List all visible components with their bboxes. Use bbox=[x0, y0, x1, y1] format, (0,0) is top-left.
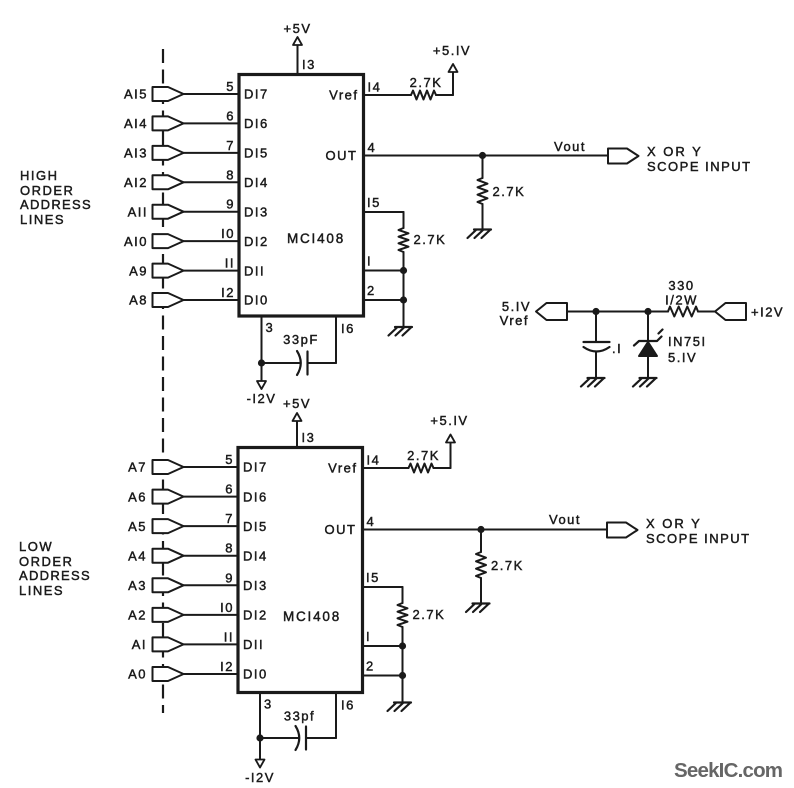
wire 5.1V rail bbox=[567, 311, 648, 313]
svg-text:2: 2 bbox=[366, 659, 375, 674]
svg-text:+5.IV: +5.IV bbox=[430, 413, 468, 428]
svg-text:A2: A2 bbox=[128, 608, 147, 623]
svg-text:LINES: LINES bbox=[19, 583, 64, 598]
svg-text:ORDER: ORDER bbox=[20, 183, 74, 198]
input buffer AI5 with wire to pin 5 bbox=[124, 79, 269, 102]
svg-text:ADDRESS: ADDRESS bbox=[19, 568, 91, 583]
svg-text:I2: I2 bbox=[220, 659, 234, 674]
svg-text:5: 5 bbox=[226, 79, 235, 94]
input buffer AI4 with wire to pin 6 bbox=[124, 108, 269, 131]
svg-text:8: 8 bbox=[225, 541, 234, 556]
svg-text:AI3: AI3 bbox=[124, 146, 148, 161]
svg-text:DI4: DI4 bbox=[243, 548, 268, 563]
junction at filter capacitor bbox=[592, 308, 599, 315]
svg-text:A0: A0 bbox=[128, 667, 147, 682]
resistor 2.7K from Vout node to ground bbox=[476, 530, 524, 604]
svg-text:DII: DII bbox=[243, 637, 264, 652]
svg-text:2: 2 bbox=[367, 283, 376, 298]
svg-text:33pF: 33pF bbox=[283, 332, 319, 347]
svg-text:AI4: AI4 bbox=[124, 116, 148, 131]
input buffer A2 with wire to pin I0 bbox=[128, 600, 268, 623]
svg-text:A9: A9 bbox=[129, 263, 148, 278]
svg-text:Vout: Vout bbox=[554, 139, 586, 154]
svg-text:AI0: AI0 bbox=[124, 234, 148, 249]
ground below Vout load resistor bbox=[468, 230, 492, 239]
svg-text:5.IV: 5.IV bbox=[668, 350, 697, 365]
input buffer A8 with wire to pin I2 bbox=[129, 285, 269, 308]
input buffer AI3 with wire to pin 7 bbox=[124, 138, 269, 161]
svg-text:A4: A4 bbox=[128, 548, 147, 563]
ground below zener bbox=[633, 378, 657, 387]
svg-text:+5V: +5V bbox=[284, 21, 312, 36]
svg-text:SeekIC.com: SeekIC.com bbox=[674, 759, 782, 782]
svg-text:33pf: 33pf bbox=[284, 709, 315, 724]
U2 pin 13 +5V supply bbox=[283, 396, 315, 448]
svg-text:DI0: DI0 bbox=[244, 293, 269, 308]
svg-text:DI3: DI3 bbox=[244, 204, 269, 219]
svg-text:4: 4 bbox=[368, 140, 377, 155]
svg-text:2.7K: 2.7K bbox=[493, 184, 526, 199]
label HIGH ORDER ADDRESS LINES bbox=[20, 168, 92, 227]
svg-text:Vref: Vref bbox=[500, 313, 529, 328]
U2 pin 15 wire and 2.7K resistor to pins 1,2 bbox=[363, 570, 446, 646]
filter capacitor .1 bbox=[584, 312, 623, 378]
svg-text:DI2: DI2 bbox=[244, 234, 269, 249]
svg-text:I4: I4 bbox=[367, 453, 381, 468]
ground below Vout load resistor bbox=[466, 604, 490, 613]
svg-text:I: I bbox=[367, 254, 372, 269]
input buffer A7 with wire to pin 5 bbox=[128, 452, 268, 475]
svg-text:8: 8 bbox=[226, 167, 235, 182]
svg-text:5: 5 bbox=[225, 452, 234, 467]
svg-text:A5: A5 bbox=[128, 519, 147, 534]
svg-text:X OR Y: X OR Y bbox=[646, 516, 702, 531]
U1 pin 15 wire and 2.7K resistor to pins 1,2 bbox=[364, 195, 447, 271]
svg-text:DII: DII bbox=[244, 263, 265, 278]
svg-text:DI6: DI6 bbox=[243, 489, 268, 504]
svg-text:A6: A6 bbox=[128, 489, 147, 504]
svg-text:LOW: LOW bbox=[19, 539, 53, 554]
input buffer A3 with wire to pin 9 bbox=[128, 570, 268, 593]
compensation capacitor 33pf between pin 3 and pin 16 bbox=[260, 693, 355, 751]
svg-text:7: 7 bbox=[225, 511, 234, 526]
U1 pin 4 OUT wire to scope, node Vout bbox=[326, 139, 608, 163]
svg-text:DI5: DI5 bbox=[243, 519, 268, 534]
svg-text:DI7: DI7 bbox=[243, 460, 268, 475]
svg-text:+5.IV: +5.IV bbox=[433, 43, 471, 58]
ground below pins 1-2 bbox=[389, 327, 413, 336]
U2 pin 3 wire to -12V bbox=[245, 693, 275, 786]
svg-text:I6: I6 bbox=[341, 698, 355, 713]
svg-text:.I: .I bbox=[612, 341, 622, 356]
svg-text:I0: I0 bbox=[221, 226, 235, 241]
svg-text:AI: AI bbox=[132, 637, 147, 652]
svg-text:7: 7 bbox=[226, 138, 235, 153]
svg-text:Vref: Vref bbox=[329, 88, 358, 103]
svg-text:I3: I3 bbox=[302, 57, 316, 72]
svg-text:2.7K: 2.7K bbox=[414, 232, 447, 247]
svg-text:A3: A3 bbox=[128, 578, 147, 593]
DAC IC U2 MC1408 box bbox=[238, 448, 363, 693]
U1 pin 14 Vref, resistor 2.7K to +5.1V bbox=[329, 43, 471, 103]
svg-text:4: 4 bbox=[367, 514, 376, 529]
svg-text:I5: I5 bbox=[366, 570, 380, 585]
resistor 330 1/2W from +12V bbox=[648, 278, 715, 317]
svg-text:-I2V: -I2V bbox=[245, 770, 275, 785]
svg-text:LINES: LINES bbox=[20, 212, 65, 227]
U1 pin 13 +5V supply bbox=[284, 21, 316, 75]
input buffer AI with wire to pin II bbox=[132, 629, 264, 652]
dashed address-bus boundary line bbox=[162, 49, 164, 713]
svg-text:330: 330 bbox=[668, 278, 694, 293]
svg-text:DI7: DI7 bbox=[244, 87, 269, 102]
node 5.1V Vref output connector bbox=[500, 299, 567, 328]
svg-text:5.IV: 5.IV bbox=[502, 299, 531, 314]
svg-text:2.7K: 2.7K bbox=[410, 75, 443, 90]
svg-text:DI3: DI3 bbox=[243, 578, 268, 593]
svg-text:DI2: DI2 bbox=[243, 608, 268, 623]
svg-text:A7: A7 bbox=[128, 460, 147, 475]
svg-text:II: II bbox=[224, 629, 234, 644]
input buffer AI0 with wire to pin I0 bbox=[124, 226, 269, 249]
svg-text:+I2V: +I2V bbox=[751, 305, 784, 320]
U2 pin 4 OUT wire to scope, node Vout bbox=[325, 512, 607, 537]
input buffer A6 with wire to pin 6 bbox=[128, 482, 268, 505]
svg-text:3: 3 bbox=[266, 320, 275, 335]
svg-text:9: 9 bbox=[226, 197, 235, 212]
zener diode 1N751 5.1V bbox=[634, 312, 707, 378]
svg-text:OUT: OUT bbox=[326, 148, 358, 163]
ground below capacitor .1 bbox=[581, 378, 605, 387]
svg-text:SCOPE INPUT: SCOPE INPUT bbox=[646, 531, 751, 546]
svg-text:A8: A8 bbox=[129, 293, 148, 308]
junction at zener bbox=[644, 308, 651, 315]
svg-text:6: 6 bbox=[226, 108, 235, 123]
svg-text:I0: I0 bbox=[220, 600, 234, 615]
input buffer A0 with wire to pin I2 bbox=[128, 659, 268, 682]
svg-text:I5: I5 bbox=[367, 195, 381, 210]
svg-text:IN75I: IN75I bbox=[668, 334, 707, 349]
svg-text:DI0: DI0 bbox=[243, 667, 268, 682]
U2 pin 14 Vref, resistor 2.7K to +5.1V bbox=[328, 413, 468, 476]
svg-text:I3: I3 bbox=[302, 430, 316, 445]
output connector X OR Y SCOPE INPUT bbox=[608, 144, 752, 174]
svg-text:9: 9 bbox=[225, 570, 234, 585]
svg-text:Vout: Vout bbox=[549, 512, 581, 527]
compensation capacitor 33pF between pin 3 and pin 16 bbox=[262, 316, 355, 375]
input buffer AII with wire to pin 9 bbox=[128, 197, 269, 220]
DAC IC U1 MC1408 box bbox=[239, 75, 364, 317]
svg-text:3: 3 bbox=[264, 697, 273, 712]
svg-text:I2: I2 bbox=[221, 285, 235, 300]
resistor 2.7K from Vout node to ground bbox=[478, 156, 526, 230]
svg-text:2.7K: 2.7K bbox=[413, 607, 446, 622]
svg-text:DI4: DI4 bbox=[244, 175, 269, 190]
input buffer AI2 with wire to pin 8 bbox=[124, 167, 269, 190]
U1 pin 1 wire and junction bbox=[364, 254, 408, 301]
svg-text:ADDRESS: ADDRESS bbox=[20, 197, 92, 212]
output connector X OR Y SCOPE INPUT bbox=[607, 516, 751, 546]
U2 pin 1 wire and junction bbox=[363, 629, 407, 676]
svg-text:AI2: AI2 bbox=[124, 175, 148, 190]
svg-text:SCOPE INPUT: SCOPE INPUT bbox=[647, 159, 752, 174]
svg-text:I4: I4 bbox=[368, 80, 382, 95]
svg-text:MCI408: MCI408 bbox=[287, 231, 345, 246]
svg-text:AII: AII bbox=[128, 204, 148, 219]
input buffer A9 with wire to pin II bbox=[129, 256, 265, 279]
label LOW ORDER ADDRESS LINES bbox=[19, 539, 91, 598]
svg-text:Vref: Vref bbox=[328, 461, 357, 476]
U2 pin 2 wire and junction bbox=[363, 659, 407, 703]
input buffer A4 with wire to pin 8 bbox=[128, 541, 268, 564]
svg-text:OUT: OUT bbox=[325, 522, 357, 537]
ground below pins 1-2 bbox=[388, 703, 412, 712]
svg-text:-I2V: -I2V bbox=[247, 391, 277, 406]
svg-text:I/2W: I/2W bbox=[665, 293, 698, 308]
svg-text:2.7K: 2.7K bbox=[491, 558, 524, 573]
U1 pin 3 wire to -12V bbox=[247, 316, 277, 406]
U1 pin 2 wire and junction bbox=[364, 283, 408, 327]
svg-text:+5V: +5V bbox=[283, 396, 311, 411]
input buffer A5 with wire to pin 7 bbox=[128, 511, 268, 534]
svg-text:HIGH: HIGH bbox=[20, 168, 59, 183]
svg-text:MCI408: MCI408 bbox=[283, 609, 341, 624]
svg-text:DI5: DI5 bbox=[244, 146, 269, 161]
svg-text:6: 6 bbox=[225, 482, 234, 497]
svg-text:X OR Y: X OR Y bbox=[647, 144, 703, 159]
svg-text:AI5: AI5 bbox=[124, 87, 148, 102]
connector +12V input bbox=[715, 303, 784, 320]
svg-text:ORDER: ORDER bbox=[19, 554, 73, 569]
svg-text:I6: I6 bbox=[341, 321, 355, 336]
svg-text:II: II bbox=[225, 256, 235, 271]
svg-text:I: I bbox=[366, 629, 371, 644]
svg-text:DI6: DI6 bbox=[244, 116, 269, 131]
svg-text:2.7K: 2.7K bbox=[407, 448, 440, 463]
